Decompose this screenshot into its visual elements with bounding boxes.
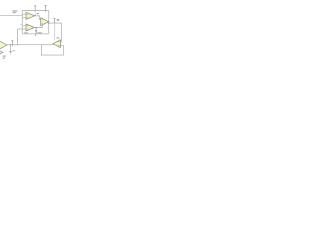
label text below U4b xyxy=(3,56,6,59)
label text right of T4 xyxy=(57,19,60,21)
op-amp U1 xyxy=(26,12,35,19)
U1 plus sign xyxy=(27,16,28,19)
ground symbol xyxy=(9,52,12,54)
probe lead below top wire at T1 xyxy=(34,11,36,13)
junction dot at ground branch xyxy=(10,44,11,45)
label text above U5 xyxy=(56,37,59,38)
wire lower horizontal of loop y33.8 xyxy=(22,33,48,35)
U5 minus sign xyxy=(58,40,59,43)
U1 minus sign xyxy=(27,13,28,16)
junction dot V1 and y23 wire xyxy=(48,22,49,23)
label text near U1 output xyxy=(36,13,39,14)
capacitor C1 on top wire xyxy=(34,6,36,11)
pin stub below loop wire xyxy=(34,34,36,36)
op-amp U4 (cut off at left edge) xyxy=(0,41,7,49)
wire left vertical bus xyxy=(21,11,23,34)
U2 plus sign xyxy=(27,28,28,31)
probe lead from y23 wire down to U5 top at x54.7 xyxy=(54,23,56,40)
pin marker T3 on bottom wire xyxy=(11,41,13,45)
op-amp U2 input stub lower / feedback wire xyxy=(18,28,27,30)
op-amp U1 input stub lower xyxy=(22,17,26,19)
U3 minus sign xyxy=(42,18,43,21)
wire U2 output to riser xyxy=(35,24,43,28)
plus label left of U2 xyxy=(20,23,21,26)
op-amp U2 input stub upper xyxy=(22,25,26,27)
label text above loop wire left xyxy=(24,32,42,33)
wire right feedback vertical V1 xyxy=(48,11,50,34)
U3 plus sign xyxy=(42,22,43,25)
U2 minus sign xyxy=(27,25,28,28)
op-amp U5 (points left) xyxy=(53,40,61,48)
wire bottom drop at x41.5 xyxy=(42,45,64,55)
junction dot at U1 output xyxy=(35,15,36,16)
U5 plus sign xyxy=(58,44,59,47)
op-amp U4b sliver (cut off) xyxy=(0,49,3,57)
wire top bus A xyxy=(22,10,48,12)
node label text above left wire xyxy=(12,10,17,13)
wire left input L1 xyxy=(0,15,22,17)
capacitor C3 from U2 output down to loop wire xyxy=(35,28,37,34)
junction dot on U2 output wire xyxy=(35,27,36,28)
probe lead below top wire at T2 xyxy=(45,11,47,13)
junction dot bottom wire x17.5 xyxy=(17,44,18,45)
wire bottom output bus xyxy=(7,44,53,46)
wire right riser to U5 upper input xyxy=(60,23,61,42)
wire feedback drop x17.5 xyxy=(17,29,19,45)
op-amp U2 xyxy=(26,24,35,31)
op-amp U1 input stub upper xyxy=(22,13,26,15)
label text near ground xyxy=(13,49,15,52)
op-amp U3 xyxy=(41,18,49,26)
probe lead below bottom wire at T3 xyxy=(11,45,13,47)
wire U1 output to U3 upper input xyxy=(35,16,41,20)
ground branch stem xyxy=(10,45,12,52)
pin marker T4 on y23 wire xyxy=(53,18,55,23)
capacitor C2 on top wire xyxy=(44,5,46,10)
wire U3 output along y23 to right riser xyxy=(49,22,62,24)
